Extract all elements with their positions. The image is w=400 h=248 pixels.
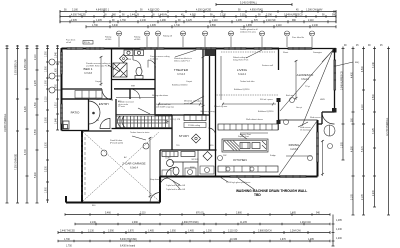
svg-text:3,049 ALFRESCO: 3,049 ALFRESCO: [284, 14, 303, 17]
svg-text:5,050 BED/LIV: 5,050 BED/LIV: [16, 59, 18, 75]
svg-text:2,905: 2,905: [35, 80, 37, 86]
svg-text:W: W: [182, 34, 184, 36]
svg-text:2,090: 2,090: [132, 222, 138, 224]
svg-text:P1 note: P1 note: [118, 105, 126, 108]
svg-text:Sheet: Sheet: [283, 51, 289, 54]
svg-text:2,110: 2,110: [362, 104, 364, 110]
svg-text:1,485: 1,485: [290, 213, 296, 215]
svg-text:panel infill: panel infill: [184, 103, 193, 105]
svg-text:14,980 OVERALL: 14,980 OVERALL: [4, 113, 7, 132]
svg-text:4,590: 4,590: [362, 66, 364, 72]
svg-text:2,130: 2,130: [220, 15, 226, 17]
svg-text:1,590: 1,590: [46, 66, 48, 72]
svg-text:Raking sill: Raking sill: [163, 36, 173, 38]
svg-text:Fridge: Fridge: [270, 155, 277, 157]
svg-text:1,485: 1,485: [308, 239, 314, 241]
svg-text:1,485: 1,485: [336, 220, 342, 222]
svg-text:timber, walls P1.3: timber, walls P1.3: [174, 60, 191, 63]
svg-text:living. Refer P1.3: living. Refer P1.3: [233, 60, 249, 62]
svg-text:1,430: 1,430: [336, 229, 342, 231]
svg-text:Bulkhead @2550: Bulkhead @2550: [172, 85, 188, 87]
svg-text:W: W: [286, 34, 288, 36]
svg-text:4,050 CSD: 4,050 CSD: [25, 58, 27, 70]
svg-text:Slab recess: Slab recess: [310, 117, 320, 119]
svg-text:2,110: 2,110: [212, 20, 218, 22]
svg-text:3,040: 3,040: [112, 25, 118, 27]
svg-text:Step down 50: Step down 50: [150, 178, 163, 181]
svg-text:16R @ 178: 16R @ 178: [170, 119, 181, 121]
svg-text:10,336: 10,336: [230, 239, 238, 241]
svg-text:2,230: 2,230: [46, 166, 48, 172]
svg-text:1,510: 1,510: [56, 102, 58, 108]
svg-text:Brick pier: Brick pier: [286, 95, 295, 97]
svg-text:4,350 TH/CSD: 4,350 TH/CSD: [71, 15, 86, 17]
svg-text:Carpet: Carpet: [186, 80, 192, 83]
svg-text:4,430: 4,430: [352, 72, 354, 78]
svg-text:Raked clg over: Raked clg over: [214, 106, 228, 108]
svg-text:870 (G): 870 (G): [196, 213, 204, 215]
svg-text:3,125: 3,125: [373, 128, 375, 134]
svg-text:1,350: 1,350: [46, 51, 48, 57]
svg-text:4,020: 4,020: [25, 106, 27, 112]
svg-text:3,049 ALFRESCO: 3,049 ALFRESCO: [341, 71, 344, 90]
svg-text:1,620: 1,620: [56, 68, 58, 74]
svg-text:1,000: 1,000: [46, 80, 48, 86]
svg-text:LIVING: LIVING: [237, 68, 248, 72]
svg-text:W: W: [157, 34, 159, 36]
svg-text:2,440 TH/CSD: 2,440 TH/CSD: [60, 231, 75, 233]
svg-text:HWS: HWS: [320, 99, 325, 101]
svg-text:Wall cabinet above: Wall cabinet above: [246, 118, 264, 121]
svg-text:1,950: 1,950: [56, 84, 58, 90]
svg-text:@ doorway: @ doorway: [300, 130, 310, 132]
svg-text:Prov. blind fix: Prov. blind fix: [292, 37, 304, 39]
svg-text:TBD: TBD: [254, 193, 261, 197]
svg-text:BED 1: BED 1: [84, 67, 93, 71]
svg-text:2,110: 2,110: [276, 25, 282, 27]
svg-text:sill o/f: sill o/f: [66, 42, 72, 44]
svg-text:ENS: ENS: [127, 59, 132, 61]
svg-text:1,050: 1,050: [170, 231, 176, 233]
svg-text:WIR: WIR: [131, 86, 135, 88]
svg-text:Sliding robe doors: Sliding robe doors: [152, 95, 168, 97]
svg-text:2,110 SD: 2,110 SD: [266, 20, 276, 22]
svg-text:6,430 lin board: 6,430 lin board: [120, 245, 136, 248]
svg-text:2,090: 2,090: [108, 231, 114, 233]
svg-text:8,030 (HO/CSD): 8,030 (HO/CSD): [120, 239, 137, 241]
svg-text:2,880: 2,880: [236, 213, 242, 215]
svg-text:4,350 CSD: 4,350 CSD: [148, 10, 160, 12]
svg-text:2,930: 2,930: [46, 142, 48, 148]
svg-text:1,445.29: 1,445.29: [130, 15, 140, 17]
svg-text:W: W: [146, 34, 148, 36]
svg-text:2,110: 2,110: [240, 15, 246, 17]
svg-text:Obscure glazing: Obscure glazing: [200, 111, 214, 113]
svg-text:sill 900: sill 900: [134, 39, 141, 41]
svg-text:Timber frame to stairs: Timber frame to stairs: [130, 131, 149, 134]
svg-text:4,990 (TH/CSD): 4,990 (TH/CSD): [182, 222, 199, 224]
svg-text:3,125: 3,125: [186, 20, 192, 22]
svg-text:820 lin: 820 lin: [84, 42, 90, 44]
svg-text:2,105: 2,105: [352, 194, 354, 200]
svg-text:2,590: 2,590: [210, 25, 216, 27]
svg-text:3,140: 3,140: [373, 62, 375, 68]
svg-text:1,740: 1,740: [174, 25, 180, 27]
svg-text:KITCHEN: KITCHEN: [233, 158, 247, 162]
svg-text:1,790: 1,790: [64, 239, 70, 241]
svg-text:WASHING MACHINE DRAIN THROUGH: WASHING MACHINE DRAIN THROUGH WALL: [236, 189, 307, 193]
svg-text:2,110: 2,110: [35, 54, 37, 60]
svg-text:1,665: 1,665: [246, 25, 252, 27]
svg-text:Gas pt: Gas pt: [296, 106, 302, 109]
svg-text:WC/LIN: WC/LIN: [192, 159, 200, 161]
svg-text:2,110: 2,110: [308, 20, 314, 22]
svg-text:6.4x4.4: 6.4x4.4: [238, 73, 247, 76]
svg-text:and WIR. Refer note P1.3: and WIR. Refer note P1.3: [86, 65, 110, 68]
svg-text:2,305: 2,305: [71, 20, 77, 22]
svg-text:2,880 BD/CH: 2,880 BD/CH: [258, 231, 272, 233]
svg-text:11,235: 11,235: [240, 222, 248, 224]
svg-text:1,485: 1,485: [236, 20, 242, 22]
svg-text:DINING: DINING: [289, 143, 300, 147]
svg-text:W: W: [230, 34, 232, 36]
svg-text:1,445 AV: 1,445 AV: [158, 14, 168, 17]
svg-text:2,130: 2,130: [140, 20, 146, 22]
svg-text:2,110: 2,110: [46, 96, 48, 102]
svg-text:1,205: 1,205: [342, 142, 344, 148]
svg-text:LDRY: LDRY: [165, 158, 171, 160]
svg-text:Triple lock to door H8: Triple lock to door H8: [166, 188, 186, 191]
svg-text:sill 900: sill 900: [105, 39, 112, 41]
svg-text:4,365: 4,365: [190, 15, 196, 17]
svg-text:2,110 SD: 2,110 SD: [228, 231, 238, 233]
svg-text:DW: DW: [223, 155, 226, 157]
svg-text:1,286 CAV/MAV: 1,286 CAV/MAV: [306, 9, 323, 12]
svg-text:1,750: 1,750: [66, 246, 72, 248]
svg-text:windows this area: windows this area: [240, 30, 257, 33]
svg-text:6.0x6.4: 6.0x6.4: [130, 167, 139, 170]
svg-text:2740H ceiling: 2740H ceiling: [188, 125, 200, 127]
svg-text:2,130: 2,130: [90, 222, 96, 224]
svg-text:5,466: 5,466: [105, 213, 111, 215]
svg-text:Bulkhead @2550: Bulkhead @2550: [258, 111, 274, 113]
svg-text:3.6x4.6: 3.6x4.6: [301, 78, 310, 81]
svg-text:(Provide jamb): (Provide jamb): [110, 143, 123, 145]
svg-text:1,280: 1,280: [160, 20, 166, 22]
svg-text:1,590: 1,590: [35, 102, 37, 108]
svg-text:5,070: 5,070: [362, 146, 364, 152]
svg-text:4,280: 4,280: [352, 146, 354, 152]
svg-text:TV pt: TV pt: [305, 85, 310, 88]
svg-text:1,485: 1,485: [188, 231, 194, 233]
svg-text:1,800: 1,800: [46, 187, 48, 193]
svg-text:2,130: 2,130: [312, 25, 318, 27]
svg-text:1,205: 1,205: [96, 20, 102, 22]
svg-text:2,190: 2,190: [266, 15, 272, 17]
svg-text:7,250 GARAGE: 7,250 GARAGE: [15, 153, 18, 170]
svg-text:2,590: 2,590: [373, 94, 375, 100]
svg-text:1,200 high glass pool fence: 1,200 high glass pool fence: [226, 182, 251, 184]
svg-text:1,540: 1,540: [56, 52, 58, 58]
svg-text:2,130: 2,130: [88, 231, 94, 233]
svg-text:Timber look tiles: Timber look tiles: [240, 80, 255, 83]
svg-text:1,790: 1,790: [92, 25, 98, 27]
svg-text:2,930: 2,930: [373, 190, 375, 196]
svg-text:THEATER: THEATER: [174, 68, 189, 72]
svg-text:W: W: [118, 34, 120, 36]
svg-text:PATIO: PATIO: [71, 111, 80, 115]
svg-text:1,305: 1,305: [150, 25, 156, 27]
svg-text:1,760: 1,760: [120, 20, 126, 22]
svg-text:2,110: 2,110: [140, 213, 146, 215]
svg-text:1,200: 1,200: [206, 231, 212, 233]
svg-text:1,485: 1,485: [148, 231, 154, 233]
svg-text:BRM: BRM: [190, 167, 195, 169]
svg-text:Carpet: Carpet: [95, 80, 101, 83]
svg-text:4.2x3.8: 4.2x3.8: [290, 148, 299, 151]
svg-text:4,700: 4,700: [25, 149, 27, 155]
svg-text:2,105: 2,105: [362, 194, 364, 200]
svg-text:ENTRY: ENTRY: [99, 102, 109, 106]
svg-text:1,970: 1,970: [128, 231, 134, 233]
svg-text:900 ref. space: 900 ref. space: [260, 99, 274, 101]
svg-text:12,730 OVERALL: 12,730 OVERALL: [386, 117, 389, 136]
svg-text:STUDY: STUDY: [179, 134, 190, 138]
svg-text:with 600H range top: with 600H range top: [156, 106, 175, 109]
svg-text:3.7x4.3: 3.7x4.3: [177, 73, 186, 76]
svg-text:Bulkhead @2550: Bulkhead @2550: [234, 89, 250, 91]
svg-text:2 CAR GARAGE: 2 CAR GARAGE: [122, 162, 145, 166]
svg-text:to alcove: to alcove: [150, 58, 159, 61]
svg-text:Feature wall: Feature wall: [262, 64, 273, 67]
svg-text:BBQ: BBQ: [355, 62, 360, 64]
svg-text:3,530: 3,530: [35, 129, 37, 135]
svg-text:ALFRESCO: ALFRESCO: [297, 73, 314, 77]
svg-text:1,264 CAV: 1,264 CAV: [290, 230, 301, 233]
svg-text:3.7x3.8: 3.7x3.8: [84, 72, 93, 75]
svg-text:1,264 CAV: 1,264 CAV: [300, 221, 311, 224]
svg-text:5,290: 5,290: [35, 172, 37, 178]
svg-text:1,200: 1,200: [336, 238, 342, 240]
svg-text:1,970: 1,970: [280, 239, 286, 241]
svg-text:2,180: 2,180: [72, 10, 78, 12]
svg-text:4,845 BED 1: 4,845 BED 1: [96, 10, 110, 12]
svg-text:1,640: 1,640: [56, 118, 58, 124]
svg-text:2,090: 2,090: [46, 117, 48, 123]
svg-text:Downpipe: Downpipe: [313, 52, 323, 54]
svg-text:4,950 ATIAD: 4,950 ATIAD: [250, 9, 263, 12]
svg-text:5,145 OVERALL: 5,145 OVERALL: [240, 2, 258, 5]
